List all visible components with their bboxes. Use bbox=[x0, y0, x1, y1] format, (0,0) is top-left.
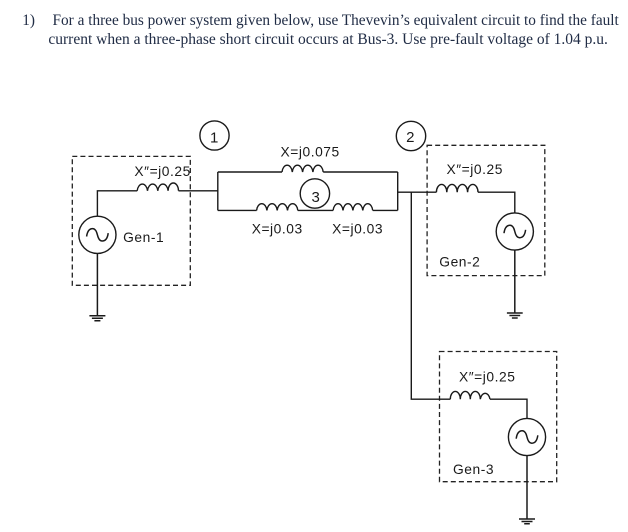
svg-text:3: 3 bbox=[312, 189, 320, 206]
svg-text:X″=j0.25: X″=j0.25 bbox=[134, 164, 190, 179]
svg-text:1: 1 bbox=[210, 130, 218, 147]
svg-text:Gen-2: Gen-2 bbox=[439, 255, 480, 270]
svg-text:X=j0.03: X=j0.03 bbox=[332, 221, 383, 236]
svg-text:X″=j0.25: X″=j0.25 bbox=[447, 162, 503, 177]
svg-text:X=j0.03: X=j0.03 bbox=[252, 221, 303, 236]
svg-text:Gen-3: Gen-3 bbox=[453, 462, 494, 477]
svg-text:Gen-1: Gen-1 bbox=[123, 230, 164, 245]
svg-text:X=j0.075: X=j0.075 bbox=[281, 144, 340, 159]
svg-text:2: 2 bbox=[406, 129, 414, 146]
svg-text:X″=j0.25: X″=j0.25 bbox=[459, 370, 515, 385]
